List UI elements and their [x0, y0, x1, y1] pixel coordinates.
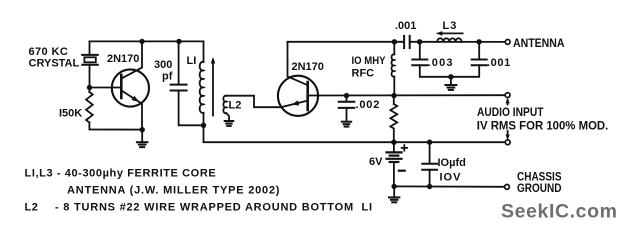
svg-text:.001: .001 — [487, 57, 511, 69]
svg-text:2N170: 2N170 — [107, 53, 139, 65]
svg-text:.002: .002 — [356, 99, 381, 111]
svg-text:RFC: RFC — [352, 68, 375, 80]
svg-text:pf: pf — [162, 71, 173, 83]
svg-text:AUDIO INPUT: AUDIO INPUT — [477, 105, 544, 119]
svg-text:LI,L3 - 40-300µhy FERRITE CO: LI,L3 - 40-300µhy FERRITE CORE — [25, 167, 217, 179]
svg-text:- 8 TURNS #22 WIRE WRAPPED ARO: - 8 TURNS #22 WIRE WRAPPED AROUND BOTTOM… — [55, 202, 373, 214]
svg-text:GROUND: GROUND — [517, 181, 562, 195]
svg-text:CRYSTAL: CRYSTAL — [29, 57, 80, 69]
svg-text:L2: L2 — [229, 99, 242, 111]
svg-text:IOµfd: IOµfd — [438, 157, 466, 169]
svg-text:.001: .001 — [395, 20, 416, 32]
svg-text:.003: .003 — [428, 57, 454, 69]
svg-text:IOV: IOV — [440, 172, 462, 184]
svg-text:L2: L2 — [25, 202, 39, 214]
svg-text:ANTENNA: ANTENNA — [513, 36, 565, 50]
svg-text:300: 300 — [154, 59, 172, 71]
svg-text:I50K: I50K — [59, 107, 82, 119]
svg-text:L3: L3 — [443, 20, 458, 32]
svg-text:6V: 6V — [369, 156, 383, 168]
svg-text:ANTENNA (J.W. MILLER TYPE 2: ANTENNA (J.W. MILLER TYPE 2002) — [67, 184, 280, 196]
svg-text:IV RMS FOR 100% MOD.: IV RMS FOR 100% MOD. — [477, 118, 609, 132]
svg-text:LI: LI — [187, 55, 197, 67]
svg-text:IO MHY: IO MHY — [352, 55, 387, 67]
svg-text:SeekIC.com: SeekIC.com — [501, 201, 618, 223]
svg-text:2N170: 2N170 — [292, 61, 324, 73]
